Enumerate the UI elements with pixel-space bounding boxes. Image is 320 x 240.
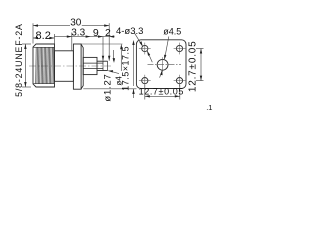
center circle: [157, 59, 168, 70]
arrow at flange ext: [67, 35, 72, 37]
dimension linework: [22, 23, 137, 98]
svg-text:12.7±0.05: 12.7±0.05: [139, 86, 184, 96]
flange collar chamfer: [81, 44, 83, 89]
hole crosshairs: [139, 43, 186, 87]
8.2 arrows: [33, 37, 38, 39]
dia4 dim line: [113, 50, 115, 61]
corner holes: [142, 45, 148, 51]
insulator lines: [83, 62, 103, 64]
right dim arrows: [200, 49, 202, 54]
svg-text:8.2: 8.2: [36, 30, 51, 42]
neck: [55, 51, 74, 82]
svg-text:.1: .1: [206, 103, 212, 112]
ext lines: [32, 23, 34, 43]
17.5 arrows: [120, 44, 122, 49]
center crosshair: [148, 64, 182, 66]
pin leader: [108, 71, 119, 74]
thread hatch: [36, 47, 54, 83]
flange side: [73, 44, 81, 89]
thread barrel outline: [33, 44, 55, 87]
svg-text:17.5×17.5: 17.5×17.5: [120, 46, 130, 91]
svg-text:12.7±0.05: 12.7±0.05: [187, 40, 198, 92]
right view dims: [135, 33, 204, 99]
arrow between 3.3 and 9: [86, 35, 91, 37]
svg-text:ø4.5: ø4.5: [163, 26, 181, 36]
centerline side view: [29, 65, 112, 67]
bottom dim: [144, 85, 146, 100]
leader 4-o3.3: [135, 33, 143, 45]
pin: [97, 60, 108, 62]
svg-text:9: 9: [93, 27, 99, 39]
flange square: [136, 40, 186, 89]
arrows side view: [24, 24, 135, 94]
right dim: [196, 48, 204, 50]
thread dia dim: [22, 43, 31, 45]
leader o4.5: [165, 37, 169, 59]
texts side view: [14, 17, 130, 101]
bottom dim arrows: [145, 95, 150, 97]
30 dim line with gap under text: [33, 25, 70, 27]
svg-text:2: 2: [105, 27, 111, 39]
2 arrows outside: [98, 35, 103, 37]
rear body: [83, 57, 97, 74]
row2 ext stubs: [53, 34, 55, 44]
pin end leader arrow: [108, 70, 113, 72]
down arrows at pin: [102, 56, 104, 61]
thread minor lines: [34, 46, 55, 48]
svg-text:3.3: 3.3: [71, 27, 85, 38]
leader arrows: [139, 41, 142, 46]
svg-text:4-ø3.3: 4-ø3.3: [116, 26, 143, 37]
svg-text:5/8-24UNEF-2A: 5/8-24UNEF-2A: [14, 23, 24, 97]
RIGHT VIEW: [136, 40, 186, 89]
30 arrows: [33, 24, 38, 26]
svg-text:ø1.27: ø1.27: [102, 73, 113, 101]
17.5 dim: [81, 43, 122, 45]
thread dia arrows: [24, 44, 26, 49]
row2 dim line with gap under 8.2: [33, 37, 36, 39]
